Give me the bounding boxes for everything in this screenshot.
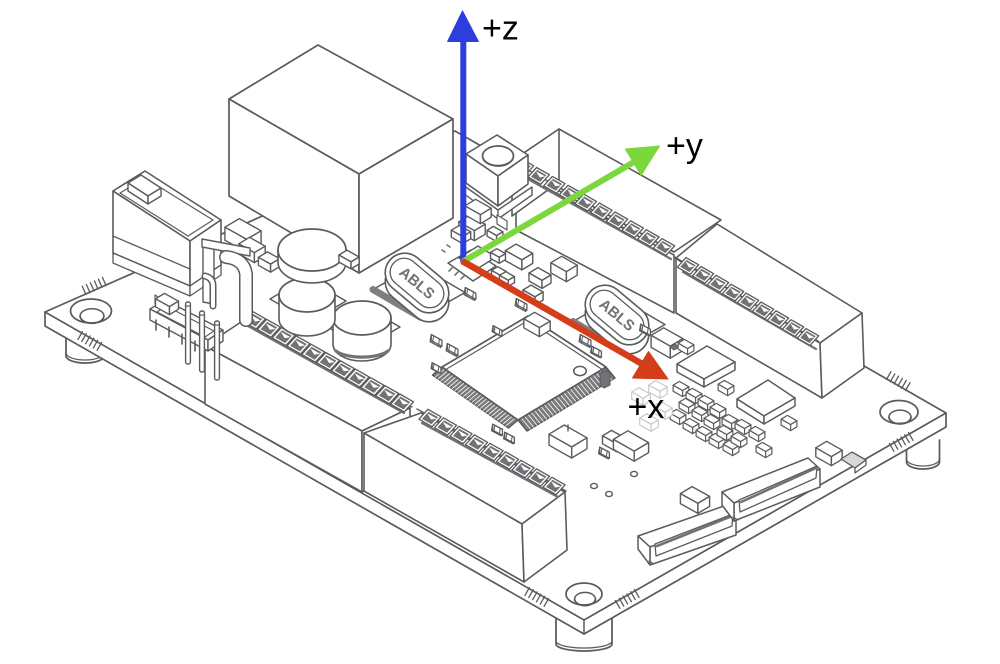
svg-text:+y: +y [666, 127, 703, 165]
svg-text:+z: +z [482, 10, 519, 48]
svg-text:+x: +x [628, 388, 665, 426]
